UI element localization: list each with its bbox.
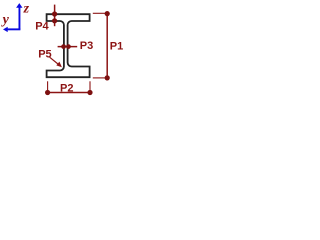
P3 marker: web thickness <box>58 46 78 48</box>
P2 marker: flange width dimension <box>48 92 90 94</box>
svg-text:y: y <box>1 13 10 28</box>
I-beam cross-section outline <box>47 14 90 77</box>
P1 marker: section height dimension <box>106 13 108 78</box>
P4 marker: flange thickness <box>54 5 56 27</box>
P5 marker: fillet radius arrow <box>50 57 60 65</box>
svg-text:z: z <box>23 1 30 16</box>
svg-text:P2: P2 <box>60 82 73 94</box>
axis arrow z (vertical, blue) <box>16 3 22 29</box>
background <box>0 0 130 100</box>
svg-text:P3: P3 <box>80 40 93 52</box>
svg-text:P1: P1 <box>110 41 123 53</box>
svg-text:P5: P5 <box>38 49 51 61</box>
svg-text:P4: P4 <box>35 20 49 32</box>
axis arrow y (horizontal, blue) <box>3 27 20 32</box>
